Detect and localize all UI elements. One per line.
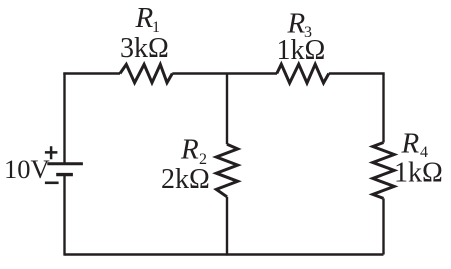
wire: top-left segment (left corner to R1): [65, 72, 121, 73]
resistor R4 (zigzag): [373, 143, 394, 199]
resistor R3 (zigzag): [277, 64, 329, 83]
svg-text:1kΩ: 1kΩ: [277, 35, 326, 66]
wire: left branch lower (battery to bottom-left corner): [63, 175, 65, 256]
wire: middle branch upper (top node to R2): [226, 74, 228, 145]
battery V1 long plate (+): [47, 162, 83, 165]
wire: middle branch lower (R2 to bottom node): [226, 197, 228, 256]
svg-text:1kΩ: 1kΩ: [394, 158, 443, 189]
svg-text:R: R: [135, 2, 154, 34]
wire: R1 to middle node: [172, 72, 277, 74]
wire: bottom (bottom-left corner to bottom-right corner): [65, 253, 384, 255]
svg-text:2kΩ: 2kΩ: [161, 164, 210, 195]
svg-text:3kΩ: 3kΩ: [120, 33, 169, 64]
wire: left branch upper (top-left corner down to battery): [63, 72, 65, 163]
battery − sign: [45, 182, 59, 185]
svg-text:10V: 10V: [4, 154, 50, 184]
wire: right branch lower (R4 to bottom-right corner): [382, 198, 384, 254]
battery V1 short plate (−): [56, 173, 73, 176]
resistor R2 (zigzag): [216, 144, 237, 197]
battery + sign: [45, 146, 58, 159]
svg-text:R: R: [401, 127, 420, 159]
wire: R3 to top-right corner: [329, 74, 384, 75]
resistor R1 (zigzag): [120, 64, 172, 82]
wire: right branch upper (top-right corner to R4): [382, 74, 384, 143]
svg-text:R: R: [180, 134, 199, 166]
